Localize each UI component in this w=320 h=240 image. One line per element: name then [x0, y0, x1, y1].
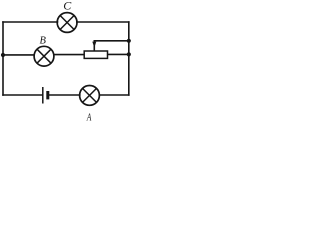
lamp A — [80, 86, 100, 106]
wire: rheostat right terminal to right border — [108, 53, 129, 55]
wire: lamp B to rheostat left terminal — [54, 54, 84, 56]
svg-text:C: C — [63, 0, 72, 13]
wire: bottom border left segment (corner to battery) — [3, 94, 42, 96]
wire: right border (top-right to bottom-right corner) — [128, 22, 130, 95]
junction: middle branch on left border — [1, 53, 5, 57]
junction: slider arm on right border — [127, 39, 131, 43]
wire: left border (top-left to bottom-left corner) — [2, 22, 4, 95]
wire: battery to lamp A — [49, 94, 79, 96]
wire: rheostat slider arm to right border — [94, 41, 129, 51]
rheostat slider arrow — [92, 42, 96, 48]
rheostat R (resistor body) — [84, 51, 107, 58]
wire: middle branch, left border to lamp B — [3, 54, 34, 56]
svg-text:B: B — [39, 36, 46, 47]
battery BT1: long thin plate — [42, 87, 44, 104]
lamp C — [57, 13, 77, 33]
battery BT1: short thick plate — [46, 91, 49, 99]
lamp B — [34, 46, 54, 66]
svg-text:A: A — [86, 111, 92, 122]
wire: lamp A to bottom-right corner — [99, 94, 129, 96]
wire: top border left segment (corner to lamp C) — [3, 21, 58, 23]
junction: rheostat terminal on right border — [127, 52, 131, 56]
wire: top border right segment (lamp C to top-right corner) — [77, 21, 129, 23]
